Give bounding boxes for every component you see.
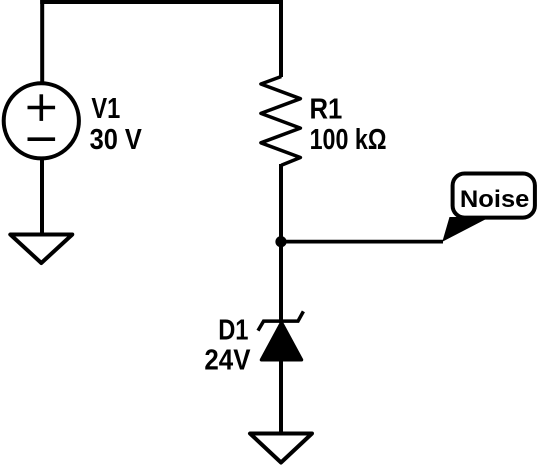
wire top horizontal from V1 to R1 [40,0,283,4]
ground (below D1) [250,434,312,463]
wire left vertical from top rail to V1 positive terminal [40,0,44,82]
Noise flag tail [442,217,490,242]
voltage source V1 [4,83,79,158]
svg-text:30 V: 30 V [90,124,142,156]
wire D1 anode to ground [279,360,283,433]
Noise flag box [453,174,535,218]
node junction dot [275,236,286,247]
zener diode D1 anode triangle [262,323,302,360]
wire node to Noise flag [281,240,443,244]
wire V1 negative terminal to ground [40,158,44,234]
wire right vertical from top rail to R1 [279,0,283,77]
svg-text:24V: 24V [204,345,250,377]
svg-text:100 kΩ: 100 kΩ [310,124,387,156]
svg-text:D1: D1 [218,314,248,346]
zener diode D1 cathode bar [258,311,303,330]
svg-text:Noise: Noise [460,186,529,213]
svg-text:R1: R1 [310,93,343,125]
wire R1 bottom to node and on to D1 [279,164,283,323]
resistor R1 [261,77,301,166]
svg-text:V1: V1 [91,93,120,125]
ground (below V1) [10,235,72,264]
